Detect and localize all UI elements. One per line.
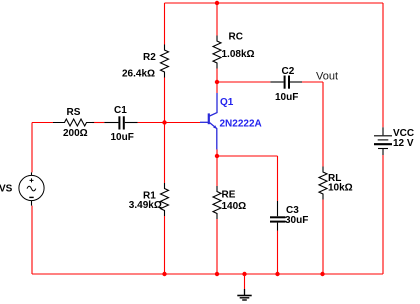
svg-text:1.08kΩ: 1.08kΩ — [222, 49, 255, 60]
svg-text:200Ω: 200Ω — [63, 128, 88, 139]
capacitor C1 — [104, 116, 137, 129]
wire collector node to C2 — [217, 81, 270, 83]
wire VCC right vertical lower — [382, 155, 384, 274]
svg-text:3.49kΩ: 3.49kΩ — [129, 200, 162, 211]
resistor R1 — [161, 183, 169, 216]
resistor RC — [213, 36, 221, 69]
wire top rail — [165, 2, 384, 4]
svg-text:C2: C2 — [282, 66, 295, 77]
resistor RE — [213, 186, 221, 219]
junction node collector/C2 — [215, 80, 219, 84]
svg-text:VS: VS — [0, 184, 13, 195]
AC source VS — [19, 172, 44, 205]
wire Vout corner down to RL — [322, 82, 324, 167]
svg-text:R2: R2 — [143, 52, 156, 63]
svg-text:2N2222A: 2N2222A — [220, 118, 262, 129]
transistor Q1 — [200, 93, 217, 150]
svg-text:RS: RS — [67, 107, 81, 118]
wire R1 bottom — [164, 216, 166, 274]
wire VS top vertical — [31, 123, 33, 173]
wire RC bottom to collector node — [216, 69, 218, 83]
svg-text:12 V: 12 V — [393, 138, 414, 149]
svg-text:RC: RC — [229, 32, 243, 43]
junction node RL bottom rail — [320, 272, 324, 276]
wire VCC right vertical upper — [382, 3, 384, 127]
junction node C3 bottom rail — [275, 272, 279, 276]
wire ground drop — [244, 274, 246, 289]
junction node R1 bottom rail — [162, 272, 166, 276]
wire emitter node to C3 branch — [217, 155, 278, 157]
svg-text:30uF: 30uF — [285, 215, 308, 226]
wire C3 top vertical — [277, 156, 279, 201]
svg-text:10kΩ: 10kΩ — [328, 183, 353, 194]
wire R2 top drop — [164, 3, 166, 45]
svg-text:Vout: Vout — [316, 71, 338, 83]
junction node RE bottom rail — [215, 272, 219, 276]
battery VCC — [374, 127, 392, 155]
wire collector node to transistor — [216, 82, 218, 93]
wire C3 bottom vertical — [277, 231, 279, 275]
ground — [237, 289, 251, 300]
svg-text:Q1: Q1 — [220, 97, 234, 108]
svg-text:C1: C1 — [114, 105, 127, 116]
wire C2 to Vout corner — [302, 81, 323, 83]
wire R2 bottom to base junction — [164, 77, 166, 123]
junction node ground bottom rail — [242, 272, 246, 276]
resistor R2 — [161, 45, 169, 78]
wire RL bottom — [322, 200, 324, 275]
junction node at RC top — [215, 1, 219, 5]
junction node base/R2/R1/C1 — [162, 120, 166, 124]
wire emitter to emitter node — [216, 150, 218, 157]
svg-text:10uF: 10uF — [275, 92, 298, 103]
wire C1 to base — [138, 122, 200, 124]
wire RE bottom — [216, 219, 218, 274]
capacitor C3 — [270, 201, 286, 231]
resistor RS — [53, 119, 94, 126]
wire R1 top — [164, 123, 166, 184]
wire bottom rail — [32, 273, 383, 275]
resistor RL — [319, 167, 327, 200]
svg-text:RE: RE — [222, 190, 236, 201]
wire RC top drop — [216, 3, 218, 36]
wire VS bottom vertical — [31, 206, 33, 274]
junction node emitter/RE/C3 — [215, 154, 219, 158]
svg-text:140Ω: 140Ω — [222, 201, 247, 212]
svg-text:26.4kΩ: 26.4kΩ — [122, 69, 155, 80]
capacitor C2 — [270, 76, 302, 89]
wire input left horizontal to RS — [32, 122, 53, 124]
wire RS to C1 — [92, 122, 104, 124]
wire RE top — [216, 156, 218, 186]
svg-text:10uF: 10uF — [111, 132, 134, 143]
